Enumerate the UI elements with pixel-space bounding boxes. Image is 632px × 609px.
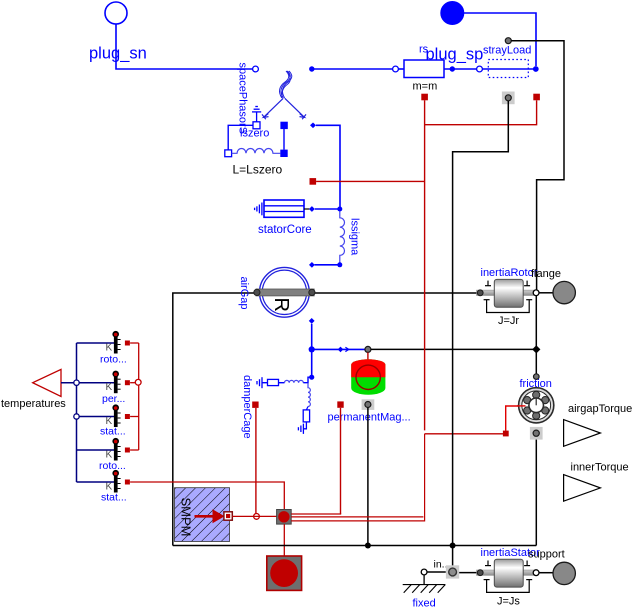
statorCore box: [264, 200, 304, 217]
wire fixed ground stem: [423, 575, 425, 585]
airGap inner circle: [262, 270, 306, 314]
friction heatPort pin: [533, 430, 539, 436]
svg-text:m=m: m=m: [413, 81, 438, 93]
svg-text:statorCore: statorCore: [258, 224, 312, 236]
friction top pin: [534, 374, 540, 380]
temperature sensor statorWinding: [100, 404, 130, 437]
inductor L=Lszero coils: [232, 149, 281, 154]
node dot strayLoad right: [533, 66, 539, 72]
SMPM flange arrow red: [195, 515, 214, 518]
wire damper vresistor to ground: [303, 422, 306, 429]
wire statorCore to node (black stub): [304, 208, 309, 210]
wire rs left stub: [398, 68, 404, 70]
wire black strayLoad heat to frame column: [453, 101, 509, 568]
airGap bar left pin: [254, 289, 260, 295]
lszero top right filled square: [280, 122, 287, 129]
wire to resistor rs: [312, 68, 393, 70]
svg-text:fixed: fixed: [413, 598, 436, 609]
node open circle navy 1: [74, 380, 79, 385]
svg-text:R: R: [270, 298, 292, 312]
node open circle rs left: [393, 66, 399, 72]
wire black rotor phasor to friction column: [371, 348, 536, 350]
wire red tee to strayLoad heat: [425, 100, 537, 124]
svg-text:plug_sn: plug_sn: [89, 45, 147, 63]
inertiaRotor left pin: [477, 290, 483, 296]
svg-text:J=Js: J=Js: [497, 596, 520, 608]
permanentMagnet heatPort highlight square: [362, 399, 375, 410]
airGap rotor bar: [256, 289, 314, 296]
strayLoad heatPort highlight: [502, 92, 515, 105]
svg-text:airgapTorque: airgapTorque: [568, 403, 632, 415]
wire spacePhasor to lssigma branch: [316, 125, 340, 207]
svg-text:temperatures: temperatures: [1, 398, 66, 410]
svg-text:innerTorque: innerTorque: [571, 462, 629, 474]
node open circle navy 2: [74, 414, 79, 419]
wire damper ground to resistor: [262, 382, 268, 384]
wire black strayLoad support to flange column: [511, 41, 564, 290]
inertiaStator body: [494, 559, 523, 587]
temperatures triangle connector: [33, 369, 61, 396]
svg-text:damperCage: damperCage: [241, 375, 253, 439]
node dot rotor phasor junction: [309, 346, 315, 352]
permanentMagnet top red: [351, 359, 385, 377]
wire red into friction: [506, 406, 524, 431]
statorCore heatPort red square: [310, 178, 317, 185]
node diamond airgap top right: [309, 262, 315, 268]
lszero inductor left terminal open square: [225, 150, 232, 157]
wire red sensor4 stub: [130, 449, 139, 451]
svg-text:K: K: [106, 382, 113, 393]
stator winding heatPort square: [421, 94, 428, 101]
wire plug_sp to strayLoad right: [464, 13, 536, 66]
temperature sensor rotorWinding: [100, 331, 130, 366]
wire to support flange: [539, 572, 553, 574]
temperature sensor permanentMagnet: [102, 371, 130, 405]
strayLoad support pin: [505, 38, 511, 44]
svg-text:K: K: [106, 450, 113, 461]
inertiaStator shaft left: [477, 570, 495, 575]
internal support pin: [449, 568, 457, 576]
inductor lssigma vertical coils: [340, 212, 345, 263]
inertiaRotor body: [494, 279, 523, 307]
inertiaStator left pin: [477, 570, 483, 576]
lszero inductor right terminal filled square: [280, 150, 287, 157]
svg-text:roto...: roto...: [100, 354, 127, 366]
wire damper resistor to coil: [279, 382, 285, 384]
node dot spacePhasorS out: [309, 66, 314, 71]
svg-text:flange: flange: [531, 268, 561, 280]
svg-text:J=Jr: J=Jr: [498, 315, 519, 327]
wire red statorCore heat: [316, 180, 425, 182]
fixed ground hatched: [403, 585, 446, 593]
wire navy to sensor1: [77, 342, 115, 344]
node dot bottom bus 2: [450, 543, 456, 549]
thermalPort block small: [277, 510, 292, 525]
permanentMagnet ring: [356, 365, 380, 389]
wire red sensor3 stub: [130, 416, 139, 418]
wire black magnet heat down: [367, 408, 369, 546]
wire black friction to bottom bus: [535, 437, 537, 546]
svg-text:strayLoad: strayLoad: [483, 45, 531, 57]
node open circle red on thermal line: [254, 514, 260, 520]
svg-text:roto...: roto...: [99, 460, 126, 472]
node open circle fixed: [421, 569, 427, 575]
node black diamond junction: [532, 345, 540, 353]
node dot bottom bus 1: [365, 543, 371, 549]
wire red into friction overlay: [517, 405, 526, 407]
support connector circle: [553, 562, 575, 584]
wire lszero right up: [283, 129, 285, 150]
node open circle strayLoad left: [477, 66, 483, 72]
wire red thermal down to ambient block: [283, 524, 285, 556]
damper heatPort red square: [252, 402, 258, 408]
spacePhasorS arrow right: [285, 98, 306, 119]
connector plug_sp: [441, 2, 464, 25]
wire red main vertical: [424, 100, 426, 430]
node diamond statorCore right: [309, 206, 315, 212]
wire internal support to inertiaStator: [459, 572, 477, 574]
wire rs to strayLoad: [444, 68, 477, 70]
airgapTorque triangle: [564, 420, 601, 447]
svg-text:SMPM: SMPM: [179, 498, 194, 537]
wire navy to sensor3: [77, 416, 115, 418]
wire black bottom bus: [173, 545, 537, 547]
friction bearing icon: [519, 388, 554, 423]
spacePhasorS ribbon symbol: [280, 71, 292, 98]
node diamond on rotor phasor wire: [338, 347, 344, 353]
wire navy to sensor4: [77, 449, 115, 451]
wire red corner to friction: [425, 433, 506, 435]
strayLoad heatPort pin: [505, 95, 511, 101]
svg-text:per...: per...: [102, 393, 125, 405]
SMPM thermal connector square: [224, 512, 232, 520]
SMPM hatched box: [175, 488, 230, 542]
svg-text:spacePhasorS: spacePhasorS: [237, 63, 249, 135]
strayLoad heatPort red square: [533, 94, 540, 101]
svg-text:airGap: airGap: [238, 277, 250, 310]
svg-text:stat...: stat...: [100, 426, 126, 438]
flange connector circle: [553, 281, 575, 303]
wire red thermal bus line 1: [291, 513, 341, 515]
wire rotor phasor blue: [312, 348, 366, 350]
damper resistor horizontal: [268, 379, 279, 385]
node diamond spacePhasor out: [310, 123, 316, 129]
wire lszero left: [228, 125, 253, 150]
inertiaRotor bearing marks: [484, 281, 533, 313]
wire rotor phasor gray pin: [365, 346, 371, 352]
arrow marks on rotor phasor wire: [345, 347, 348, 351]
wire damper coil to node: [303, 377, 311, 383]
wire navy to sensor5: [77, 481, 115, 483]
temperature sensor statorCore: [101, 470, 130, 504]
wire fixed to internal support: [427, 571, 446, 573]
magnet thermal red square: [337, 401, 343, 407]
permanentMagnet heatPort pin: [365, 402, 371, 408]
permanentMagnet body green: [351, 359, 385, 394]
inertiaStator shaft right: [523, 570, 534, 575]
lszero pin square open top: [253, 122, 260, 129]
svg-text:lssigma: lssigma: [349, 218, 361, 256]
wire black flange column through open circle: [535, 296, 537, 374]
spacePhasorS arrow left: [262, 98, 283, 119]
node diamond airgap bottom: [309, 318, 315, 324]
wire red sensor2 stub: [130, 382, 135, 384]
wire navy bus vertical: [76, 343, 78, 482]
wire damper heat down: [255, 408, 257, 514]
damper ground bottom: [298, 424, 303, 434]
node open circle red bus: [135, 379, 141, 385]
damper ground left: [257, 377, 262, 388]
svg-text:stat...: stat...: [101, 492, 127, 504]
node open circle inertiaRotor right: [533, 290, 539, 296]
svg-text:K: K: [106, 343, 113, 354]
wire lssigma bottom to airgap diamond: [315, 264, 338, 266]
connector plug_sn: [105, 2, 127, 24]
wire plug_sn to spacePhasorS: [116, 24, 253, 69]
thermal ambient block: [267, 556, 302, 590]
damper inductor horizontal coils: [285, 380, 304, 382]
node open circle spacePhasorS plug_p: [253, 66, 259, 72]
shaft line left section: [173, 293, 477, 546]
wire red magnet stub: [367, 352, 369, 361]
svg-text:lszero: lszero: [240, 128, 269, 140]
svg-text:support: support: [528, 549, 565, 561]
wire navy triangle to bus: [61, 382, 114, 384]
friction feed red square: [503, 431, 509, 437]
wire red thermal bus line 3: [291, 434, 424, 521]
wire red magnet thermal down: [340, 408, 342, 514]
damper inductor vertical coils: [308, 383, 310, 407]
inertiaRotor shaft right: [523, 290, 534, 295]
node dot damper junction: [309, 375, 314, 380]
strayLoad dotted box: [488, 60, 528, 78]
wire red sensor1 stub: [130, 342, 139, 344]
wire airgap bottom to damper node: [311, 324, 313, 375]
friction heatPort highlight: [530, 427, 543, 440]
wire strayLoad through: [482, 68, 534, 70]
wire red SMPM to thermal block: [232, 515, 276, 517]
svg-text:inertiaRotor: inertiaRotor: [481, 267, 538, 279]
node open circle inertiaStator right: [533, 570, 539, 576]
wire damper vcoil to vresistor: [306, 407, 308, 410]
svg-text:rs: rs: [419, 44, 429, 56]
resistor rs: [404, 60, 444, 78]
inertiaRotor shaft left: [477, 290, 495, 295]
innerTorque triangle: [564, 475, 601, 502]
internal support highlight: [446, 565, 459, 578]
wire red sensor bus vertical: [138, 343, 140, 450]
statorCore ground: [255, 203, 262, 216]
ground above lszero: [252, 107, 261, 122]
temperature sensor rotorCore: [99, 438, 130, 472]
airGap outer circle: [260, 267, 310, 317]
damper resistor vertical: [303, 410, 309, 422]
node dot rs right: [450, 66, 455, 71]
svg-text:L=Lszero: L=Lszero: [233, 163, 283, 177]
wire to flange: [539, 292, 553, 294]
inertiaStator bearing marks: [484, 561, 533, 593]
airGap bar right pin: [309, 289, 315, 295]
node dot lssigma bottom: [337, 262, 342, 267]
wire red sensor5 to thermal block: [130, 482, 284, 510]
wire red thermal bus line 2: [291, 516, 423, 518]
wire statorCore diamond to lssigma: [315, 208, 338, 210]
node dot lssigma top: [337, 207, 342, 212]
